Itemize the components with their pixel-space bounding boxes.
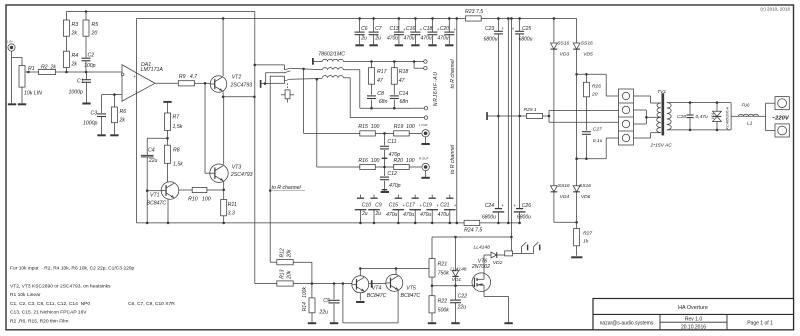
svg-text:470p: 470p (389, 183, 401, 189)
choke row2 out (343, 69, 359, 71)
resistor R12 20k (rotated labels) (270, 261, 277, 263)
svg-text:2SC4793: 2SC4793 (230, 172, 253, 178)
svg-text:750k: 750k (438, 271, 450, 277)
ground C12 (381, 191, 389, 193)
capacitor C18 470u (431, 17, 434, 20)
ground R1 (18, 103, 26, 105)
middle rail (507, 17, 510, 20)
wire VT1 emitter to bus (167, 199, 169, 223)
resistor R26 20 (585, 74, 587, 82)
svg-text:470p: 470p (389, 152, 401, 158)
wire to R15 (304, 132, 360, 134)
resistor R8 1,5k (165, 145, 171, 163)
svg-text:C21: C21 (440, 202, 449, 208)
svg-text:2k: 2k (71, 62, 78, 68)
wire to op-amp +in (56, 71, 123, 73)
resistor R6 2k (113, 95, 115, 107)
svg-text:VT2, VT3 KSC2690 or 2SC4793, o: VT2, VT3 KSC2690 or 2SC4793, on heatsink… (10, 284, 111, 290)
svg-text:R1 10k Linear: R1 10k Linear (10, 292, 41, 298)
output mute contact K1.2 (270, 76, 284, 83)
wire rail B to connector (577, 73, 607, 75)
svg-text:C13, C15. 21 Nichicon FPCAP 16: C13, C15. 21 Nichicon FPCAP 16V (10, 310, 87, 316)
ground R14 (308, 322, 316, 324)
capacitor C25 6800u (518, 17, 521, 20)
mains terminals ~220V (765, 103, 767, 130)
svg-text:C23: C23 (485, 26, 494, 32)
resistor R16 100 (317, 166, 360, 168)
rail stub above R7 (163, 101, 171, 103)
capacitor C16 470u (414, 17, 417, 20)
svg-text:BC847C: BC847C (147, 200, 167, 206)
svg-text:LM7171A: LM7171A (141, 67, 164, 73)
resistor R4 2k (63, 51, 69, 67)
svg-text:NRJ6HF-AU: NRJ6HF-AU (433, 71, 439, 106)
svg-text:+: + (454, 27, 457, 32)
resistor R25 1 (527, 113, 543, 118)
svg-text:C2: C2 (88, 53, 95, 59)
resistor R23 7.5 (466, 16, 482, 21)
relay coil K1 (287, 83, 289, 90)
diode VD4 SS16 (551, 186, 558, 192)
svg-text:BC847C: BC847C (367, 293, 387, 299)
capacitor C15 470u (397, 195, 399, 198)
svg-text:C13: C13 (390, 26, 399, 32)
capacitor C26 6800u (516, 208, 523, 210)
R25 wire (486, 112, 488, 120)
wire node to R16 row (316, 79, 318, 167)
wire R8 to VT1 collector (167, 163, 169, 182)
svg-text:R22: R22 (438, 299, 448, 305)
svg-text:2k: 2k (71, 31, 78, 37)
svg-text:R13: R13 (279, 269, 285, 278)
VT4 collector up (359, 269, 361, 276)
ground VT6 (504, 322, 512, 324)
svg-text:C12: C12 (387, 171, 397, 177)
svg-text:C16: C16 (406, 26, 415, 32)
svg-text:1000p: 1000p (69, 90, 84, 96)
svg-text:0,47u: 0,47u (696, 114, 709, 120)
transistor VT1 BC847C (161, 182, 179, 200)
resistor R20 100 (394, 164, 410, 169)
wire jack ground down (11, 51, 13, 103)
capacitor C19 470u (431, 195, 433, 198)
svg-text:C26: C26 (522, 203, 531, 209)
svg-text:C14: C14 (399, 91, 409, 97)
wires to bridge (667, 102, 731, 104)
primary winding upper (657, 103, 661, 117)
svg-text:C1, C2, C3, C8, C11, C12, C14: C1, C2, C3, C8, C11, C12, C14 NP0 (10, 301, 90, 307)
resistor R13 20k (277, 281, 293, 286)
wire to pin3 (549, 121, 619, 123)
ground C1 (82, 103, 90, 105)
wire emitter node right (223, 96, 254, 98)
wire VT4-VT5 (369, 283, 386, 285)
top rail y=11.5 (66, 11, 254, 13)
svg-text:VD5: VD5 (583, 51, 593, 57)
row y=237 (432, 236, 511, 238)
resistor R15 100 (360, 131, 376, 136)
rail B x=576.6 (576, 18, 578, 42)
svg-text:R19 100: R19 100 (394, 124, 415, 130)
svg-text:2*15V AC: 2*15V AC (650, 143, 673, 149)
svg-text:R18: R18 (399, 69, 409, 75)
VT5 emitter down (397, 290, 399, 323)
choke row1 out (343, 61, 411, 63)
resistor R11 3,3 (221, 200, 227, 216)
svg-text:C25: C25 (522, 26, 531, 32)
svg-text:R21: R21 (438, 262, 448, 268)
choke row3 out (343, 77, 350, 79)
resistor R9 4.7 (178, 81, 194, 86)
svg-text:C28: C28 (677, 114, 686, 120)
svg-text:LL4148: LL4148 (450, 267, 467, 273)
svg-text:+: + (502, 26, 505, 31)
svg-text:78602/1MC: 78602/1MC (318, 51, 345, 57)
jack R OUT (422, 163, 429, 170)
capacitor C28 0,47u (689, 101, 692, 104)
wire VT3 collector up (223, 97, 225, 165)
resistor R18 47 (393, 62, 395, 68)
svg-text:VD6: VD6 (581, 194, 591, 200)
svg-text:C7: C7 (375, 26, 382, 32)
feedback box left edge / supply bus (136, 18, 138, 222)
ground R27 (571, 256, 582, 258)
wire to pin2 (549, 110, 619, 112)
svg-text:R16 100: R16 100 (358, 158, 379, 164)
svg-text:VT3: VT3 (232, 164, 242, 170)
capacitor C24 6800u (495, 208, 502, 210)
svg-text:+: + (436, 203, 439, 208)
svg-text:C19: C19 (423, 202, 432, 208)
resistor R21 750k (431, 237, 433, 259)
svg-text:R12: R12 (279, 248, 285, 257)
svg-text:+: + (502, 203, 505, 208)
svg-text:SS16: SS16 (557, 40, 569, 46)
top bus y=18.45 (137, 17, 466, 19)
transistor VT3 2SC4793 (210, 164, 228, 182)
svg-text:R9 4,7: R9 4,7 (179, 74, 198, 80)
svg-text:R25 1: R25 1 (524, 107, 537, 113)
long vertical node wire (254, 12, 256, 284)
resistor R7 1,5k (165, 113, 171, 130)
rail C23-C24 (497, 34, 499, 209)
resistor R5 20 (85, 12, 87, 21)
capacitor C20 470u (448, 17, 451, 20)
svg-text:6800u: 6800u (482, 215, 496, 221)
svg-text:2k: 2k (119, 118, 126, 124)
wire VT2 emitter down (222, 91, 224, 97)
svg-text:R OUT: R OUT (419, 157, 429, 161)
svg-text:VT4: VT4 (372, 285, 382, 291)
svg-text:C6, C7, C9, C10 X7R: C6, C7, C9, C10 X7R (128, 301, 175, 307)
node wire right (456, 18, 458, 222)
svg-text:22u: 22u (148, 158, 158, 164)
svg-text:20k: 20k (287, 270, 293, 280)
svg-text:500k: 500k (438, 308, 450, 314)
VT4 emitter to gnd (359, 293, 361, 301)
capacitor C17 470u (414, 195, 416, 198)
svg-text:1,5k: 1,5k (173, 124, 183, 130)
secondary winding (667, 103, 671, 130)
svg-text:R24 7,5: R24 7,5 (464, 228, 482, 234)
relay feed rail (510, 17, 513, 20)
svg-text:to R channel: to R channel (450, 59, 456, 89)
svg-text:C11: C11 (387, 139, 396, 145)
wire feedback row y=283.5 (255, 283, 277, 285)
svg-text:R5: R5 (92, 22, 99, 28)
headphone jack NRJ6HF-AU (413, 60, 416, 63)
transistor VT4 BC847C (352, 276, 369, 293)
svg-text:HA Overture: HA Overture (678, 305, 708, 311)
svg-text:20.10.2016: 20.10.2016 (681, 325, 706, 331)
title block (593, 299, 794, 330)
rail A x=553.9 (553, 17, 556, 20)
VT6 drain up (483, 255, 485, 274)
mosfet VT6 2N7002 (472, 273, 491, 292)
svg-text:R23 7,5: R23 7,5 (465, 9, 483, 15)
svg-text:20k: 20k (287, 249, 293, 259)
mirror tie bar (371, 280, 373, 288)
svg-text:R26: R26 (592, 84, 601, 90)
svg-text:R7: R7 (173, 115, 181, 121)
op-amp DA1 LM7171A (122, 65, 155, 102)
svg-text:10k LIN: 10k LIN (24, 91, 42, 97)
svg-text:C20: C20 (440, 26, 449, 32)
svg-text:~220V: ~220V (772, 115, 790, 121)
ground L OUT (421, 143, 429, 145)
svg-text:VT2: VT2 (232, 75, 242, 81)
wire -in (102, 94, 123, 96)
resistor R19 100 (394, 131, 410, 136)
capacitor C10 2u (360, 195, 362, 198)
svg-text:100k: 100k (302, 287, 308, 298)
resistor R3 2k (65, 12, 67, 21)
svg-text:VD3: VD3 (560, 51, 570, 57)
gate row y=285.7 (432, 285, 472, 287)
wires to L1 (730, 103, 732, 130)
svg-text:Rev 1.0: Rev 1.0 (685, 317, 702, 323)
svg-text:L IN: L IN (7, 40, 12, 44)
svg-text:2u: 2u (374, 36, 381, 42)
svg-text:2u: 2u (360, 36, 367, 42)
svg-text:R2 ,R6, R15, R20 thin Film: R2 ,R6, R15, R20 thin Film (10, 318, 68, 324)
resistor R27 1k (574, 229, 580, 246)
svg-text:SS16: SS16 (581, 40, 593, 46)
svg-text:VT5: VT5 (406, 285, 416, 291)
jack L OUT (422, 130, 429, 137)
diode VD1 LL4148 (455, 237, 457, 271)
capacitor C13 470u (398, 17, 401, 20)
svg-text:R20 100: R20 100 (394, 158, 415, 164)
ground R6 (110, 134, 118, 136)
svg-text:BC847C: BC847C (401, 293, 421, 299)
svg-text:1,5k: 1,5k (173, 162, 183, 168)
svg-text:1000p: 1000p (83, 121, 98, 127)
svg-text:6800u: 6800u (517, 215, 531, 221)
svg-text:L1: L1 (747, 121, 753, 127)
capacitor C3 1000p (101, 95, 103, 113)
svg-text:2N7002: 2N7002 (471, 264, 490, 270)
svg-text:+: + (512, 26, 515, 31)
ground R OUT (421, 177, 429, 179)
svg-text:Page 1 of 1: Page 1 of 1 (747, 321, 773, 327)
diode VD5 SS16 (573, 43, 580, 49)
resistor R14 100k (311, 284, 313, 298)
svg-text:KC405/206 A: KC405/206 A (726, 107, 730, 130)
svg-text:(c) 2010, 2016: (c) 2010, 2016 (760, 7, 790, 12)
svg-text:1k: 1k (583, 239, 589, 245)
wire op-amp out (155, 82, 178, 84)
capacitor C22 22u (455, 286, 457, 300)
capacitor C9 2u (373, 195, 375, 198)
svg-text:C5: C5 (323, 298, 330, 304)
svg-text:R14: R14 (302, 302, 308, 311)
ground VT4 (356, 301, 364, 303)
mirror top wire (360, 268, 429, 270)
diode VD2 LL4148 (484, 254, 491, 256)
bridge rectifier VD1 KC405 (716, 101, 719, 104)
diode VD6 SS16 (573, 186, 580, 192)
svg-text:SS16: SS16 (579, 183, 591, 189)
VT5 collector up (395, 269, 397, 275)
wire VT1 to R10 (179, 189, 192, 191)
svg-text:R8: R8 (173, 148, 180, 154)
bottom bus y=223 (137, 222, 465, 224)
svg-text:VT1: VT1 (150, 193, 160, 199)
capacitor C11 470p (384, 133, 386, 145)
resistor R17 47 (371, 62, 373, 68)
svg-text:22u: 22u (457, 304, 467, 310)
wire to choke row2 (290, 68, 322, 70)
potentiometer R1 10k LIN (19, 66, 25, 88)
resistor R2 2k (39, 69, 56, 74)
output mute contact K1.1 (260, 80, 262, 88)
ground C22 (451, 322, 459, 324)
svg-text:C18: C18 (423, 26, 432, 32)
svg-text:C27: C27 (593, 127, 602, 133)
svg-text:R1: R1 (28, 66, 35, 72)
svg-text:22u: 22u (318, 310, 328, 316)
relay contact feed (255, 64, 285, 66)
relay contacts K1.1/K1.2 (513, 253, 534, 255)
svg-text:470u: 470u (403, 212, 414, 218)
svg-text:C17: C17 (406, 202, 415, 208)
svg-text:VD2: VD2 (493, 260, 503, 266)
svg-text:6800u: 6800u (484, 37, 498, 43)
svg-text:R3: R3 (72, 22, 79, 28)
capacitor C14 68n (390, 95, 399, 97)
svg-text:For 10k input - R2, R4 10k, R: For 10k input - R2, R4 10k, R6 10k, C2 2… (10, 266, 135, 272)
svg-text:nazar@s-audio.systems: nazar@s-audio.systems (600, 321, 654, 327)
svg-text:R11: R11 (228, 202, 237, 208)
svg-text:C3: C3 (91, 111, 98, 117)
wire to choke row3 (290, 78, 322, 81)
capacitor C2 100p (82, 57, 91, 59)
svg-text:470u: 470u (421, 36, 432, 42)
svg-text:C10: C10 (362, 202, 371, 208)
capacitor C21 470u (449, 195, 451, 198)
svg-text:2u: 2u (361, 211, 368, 217)
svg-text:470u: 470u (403, 36, 414, 42)
svg-text:C9: C9 (375, 202, 382, 208)
svg-text:R27: R27 (583, 231, 592, 237)
diode VD3 SS16 (551, 43, 558, 49)
svg-text:68n: 68n (379, 99, 388, 105)
svg-text:FU6: FU6 (742, 103, 751, 108)
svg-text:C1: C1 (77, 79, 84, 85)
svg-text:R10 100: R10 100 (188, 196, 211, 202)
svg-text:C4: C4 (148, 147, 155, 153)
svg-text:C6: C6 (361, 26, 368, 32)
zobel wire y=108.2 (360, 107, 411, 109)
wire R7/R8 node to C4 (147, 137, 167, 139)
svg-text:+: + (133, 74, 136, 79)
capacitor C8 68n (367, 95, 376, 97)
svg-text:470u: 470u (386, 212, 397, 218)
ground C5 (330, 322, 338, 324)
resistor R10 100 (192, 187, 207, 192)
svg-text:3,3: 3,3 (228, 211, 235, 217)
capacitor C27 0,1u (582, 131, 591, 133)
svg-text:470u: 470u (438, 212, 449, 218)
wire y=158.7 (577, 158, 607, 160)
input jack L IN (8, 44, 15, 51)
svg-text:to R channel: to R channel (450, 144, 456, 174)
capacitor C7 2u (372, 17, 375, 20)
terminal block TV1 input (619, 89, 634, 145)
svg-text:0,1u: 0,1u (593, 138, 603, 144)
svg-text:R2 2k: R2 2k (41, 64, 56, 70)
svg-text:R15 100: R15 100 (358, 124, 379, 130)
capacitor C6 2u (358, 17, 361, 20)
svg-text:2SC4793: 2SC4793 (230, 82, 253, 88)
resistor R24 7.5 (464, 220, 480, 225)
svg-text:C22: C22 (458, 294, 468, 300)
resistor R22 500k (429, 296, 435, 313)
transistor VT5 BC847C (386, 274, 403, 291)
core (662, 93, 664, 135)
svg-text:6800u: 6800u (519, 37, 533, 43)
svg-text:R6: R6 (120, 109, 127, 115)
svg-text:470u: 470u (437, 36, 448, 42)
svg-text:470u: 470u (387, 36, 398, 42)
VT6 source down (483, 291, 485, 297)
svg-text:68n: 68n (400, 99, 409, 105)
ground C3 (97, 134, 105, 136)
ground R22 (428, 322, 436, 324)
svg-text:C8: C8 (377, 91, 384, 97)
svg-text:R17: R17 (377, 69, 388, 75)
svg-text:+: + (454, 203, 457, 208)
svg-text:SS16: SS16 (558, 183, 570, 189)
svg-text:VD1: VD1 (711, 113, 715, 120)
wire jack to pot (12, 57, 23, 59)
svg-text:C15: C15 (389, 202, 398, 208)
wire node to R15 row (303, 69, 305, 133)
svg-text:2u: 2u (375, 211, 382, 217)
capacitor C23 6800u (497, 17, 500, 20)
capacitor C4 22u (146, 138, 148, 155)
ground input (8, 103, 16, 105)
rail C25-C26 (519, 34, 521, 209)
wire C4 to VT1 base (147, 190, 162, 192)
svg-text:20: 20 (591, 92, 598, 98)
svg-text:C24: C24 (485, 203, 494, 209)
svg-text:470u: 470u (420, 212, 431, 218)
wire to VT3 base (204, 83, 206, 173)
wire VT2 collector to bus (222, 18, 224, 75)
svg-text:+: + (513, 203, 516, 208)
